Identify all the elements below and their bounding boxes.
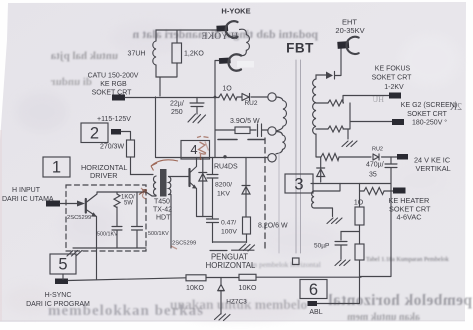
svg-text:8200/: 8200/	[215, 182, 232, 189]
svg-text:500/1KV: 500/1KV	[97, 232, 118, 238]
svg-text:RU2: RU2	[372, 147, 383, 153]
svg-text:pembelok horizontal: pembelok horizontal	[328, 292, 472, 309]
svg-text:SOKET CRT: SOKET CRT	[407, 111, 448, 118]
svg-text:HU: HU	[372, 95, 384, 104]
svg-text:1: 1	[52, 159, 61, 177]
svg-text:2: 2	[90, 125, 99, 143]
svg-text:500/1KV: 500/1KV	[148, 231, 169, 237]
svg-text:HDT: HDT	[156, 215, 171, 222]
svg-text:1O: 1O	[354, 200, 364, 207]
svg-text:1-2KV: 1-2KV	[384, 84, 404, 91]
svg-text:1O: 1O	[222, 86, 232, 93]
svg-text:4-6VAC: 4-6VAC	[397, 213, 422, 222]
svg-text:37UH: 37UH	[128, 51, 146, 58]
svg-text:FBT: FBT	[286, 41, 314, 56]
svg-text:SOKET CRT: SOKET CRT	[372, 75, 413, 82]
svg-text:270/3W: 270/3W	[100, 144, 125, 151]
svg-text:H-YOKE: H-YOKE	[221, 7, 250, 16]
svg-text:KE G2 (SCREEN): KE G2 (SCREEN)	[401, 102, 457, 109]
svg-text:1KV: 1KV	[217, 191, 230, 198]
svg-text:KE FOKUS: KE FOKUS	[375, 66, 411, 73]
svg-text:TX-42: TX-42	[153, 207, 172, 214]
svg-text:HZ7C3: HZ7C3	[226, 299, 247, 306]
svg-text:180-250V °: 180-250V °	[412, 119, 447, 127]
svg-text:3: 3	[294, 176, 303, 194]
svg-text:DARI IC UTAMA: DARI IC UTAMA	[2, 196, 54, 203]
svg-text:10KO: 10KO	[186, 285, 204, 292]
svg-text:RU2: RU2	[244, 100, 257, 107]
svg-text:3.9O/5 W: 3.9O/5 W	[230, 118, 260, 125]
svg-text:akan untuk mem: akan untuk mem	[347, 312, 420, 323]
svg-text:KE RGB: KE RGB	[100, 81, 127, 88]
svg-text:35: 35	[369, 172, 377, 179]
svg-text:1,2KO: 1,2KO	[184, 51, 204, 58]
svg-text:Tabel 1.18a Kumparan Pembelok: Tabel 1.18a Kumparan Pembelok	[366, 256, 450, 263]
svg-text:8.2O/6 W: 8.2O/6 W	[258, 223, 288, 230]
svg-text:470µ/: 470µ/	[366, 162, 384, 169]
svg-text:0.47/: 0.47/	[221, 220, 236, 227]
svg-text:250: 250	[171, 109, 183, 116]
svg-text:CATU 150-200V: CATU 150-200V	[88, 73, 139, 80]
svg-text:22µ/: 22µ/	[170, 101, 184, 108]
svg-text:H INPUT: H INPUT	[12, 187, 41, 194]
svg-text:di undur: di undur	[51, 76, 92, 88]
svg-text:RU4DS: RU4DS	[214, 164, 238, 171]
svg-text:SOKET CRT: SOKET CRT	[92, 90, 133, 97]
svg-text:ABL: ABL	[309, 309, 322, 316]
svg-text:DARI IC PROGRAM: DARI IC PROGRAM	[26, 301, 90, 308]
svg-text:an pembelok horizontal: an pembelok horizontal	[250, 260, 321, 269]
svg-text:T450: T450	[154, 199, 170, 206]
svg-text:HORIZONTAL: HORIZONTAL	[206, 261, 256, 270]
svg-text:20-35KV: 20-35KV	[335, 26, 364, 35]
svg-text:VERTIKAL: VERTIKAL	[416, 164, 451, 173]
svg-text:2SC5299: 2SC5299	[172, 241, 196, 247]
svg-text:4: 4	[190, 142, 197, 157]
svg-text:+115-125V: +115-125V	[97, 116, 131, 123]
svg-text:50µP: 50µP	[314, 243, 329, 250]
svg-text:10KO: 10KO	[239, 285, 257, 292]
svg-text:5W: 5W	[124, 201, 133, 207]
svg-text:5: 5	[58, 256, 67, 274]
svg-text:untuk hal pjta: untuk hal pjta	[50, 50, 118, 62]
svg-text:2SC5299: 2SC5299	[67, 215, 91, 221]
svg-text:H-SYNC: H-SYNC	[45, 292, 72, 299]
svg-text:100V: 100V	[221, 229, 237, 236]
svg-text:DRIVER: DRIVER	[90, 171, 118, 180]
svg-text:6: 6	[309, 281, 318, 299]
